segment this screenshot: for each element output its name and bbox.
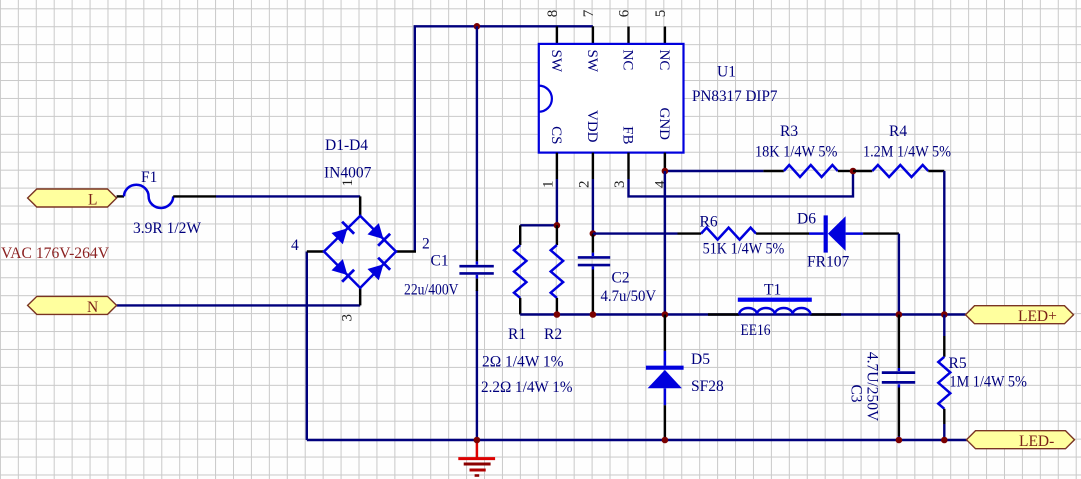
svg-text:L: L	[88, 192, 97, 209]
pin 3 stub	[627, 153, 629, 179]
pin 6 stub	[627, 27, 629, 44]
svg-text:R6: R6	[700, 214, 718, 231]
wire: D6 output down to LED+ rail	[898, 234, 900, 315]
bridge diamond	[324, 216, 396, 288]
junction dot node C1 top	[474, 23, 481, 30]
fuse F1 lead left	[117, 195, 124, 197]
svg-text:8: 8	[545, 10, 561, 18]
wire: pin 1 down to R1 R2 top	[556, 179, 558, 225]
wire: C1 vertical branch lower	[476, 290, 478, 440]
capacitor C1	[404, 250, 494, 299]
resistor R3	[755, 123, 853, 177]
diode bottom-right	[367, 258, 390, 281]
pin 4 stub	[664, 153, 666, 171]
wire: N connector to bridge bottom	[117, 304, 361, 306]
svg-text:NC: NC	[656, 50, 672, 71]
wire: pin 3 FB down and right	[629, 171, 854, 196]
svg-text:FB: FB	[620, 126, 636, 144]
port LED-	[967, 431, 1075, 450]
svg-text:C1: C1	[431, 253, 449, 270]
pin 8 stub	[556, 26, 558, 44]
svg-text:U1: U1	[717, 64, 736, 81]
port LED+	[966, 306, 1074, 325]
svg-text:VDD: VDD	[584, 110, 600, 143]
bridge pin lead top (pin 1)	[359, 196, 361, 216]
svg-text:4.7U/250V: 4.7U/250V	[864, 352, 881, 422]
svg-text:3: 3	[340, 314, 356, 322]
fuse F1 body	[124, 185, 173, 208]
diode bottom-left	[331, 259, 354, 282]
svg-text:4: 4	[291, 237, 299, 254]
wire: bottom LED- rail	[307, 439, 967, 441]
junction dot pin 4	[662, 168, 669, 175]
svg-text:N: N	[87, 299, 98, 316]
resistor R4	[853, 123, 951, 177]
wire: GND vertical to LED+ rail	[664, 171, 666, 315]
junction dot C3 top	[896, 311, 903, 318]
svg-text:C2: C2	[612, 270, 630, 287]
wire: top rail from bridge plus corner down to bridge right vertex	[415, 26, 593, 251]
svg-text:D5: D5	[691, 351, 710, 368]
pin 5 stub	[664, 27, 666, 44]
resistor R2	[551, 225, 563, 314]
resistor R5	[938, 315, 1027, 441]
pin 2 stub	[592, 153, 594, 179]
svg-text:2.2Ω 1/4W 1%: 2.2Ω 1/4W 1%	[481, 379, 573, 396]
svg-text:D1-D4: D1-D4	[325, 137, 368, 154]
svg-text:3.9R 1/2W: 3.9R 1/2W	[133, 220, 201, 237]
svg-text:1: 1	[540, 181, 556, 189]
svg-text:1.2M 1/4W 5%: 1.2M 1/4W 5%	[863, 144, 951, 161]
svg-text:18K 1/4W 5%: 18K 1/4W 5%	[755, 144, 837, 161]
svg-text:R4: R4	[889, 123, 907, 140]
diode top-right	[367, 223, 390, 246]
diode D6	[797, 211, 899, 271]
svg-text:C3: C3	[848, 384, 865, 402]
diode top-left	[331, 222, 354, 245]
diode D5	[646, 315, 724, 441]
svg-text:F1: F1	[141, 169, 157, 186]
svg-text:GND: GND	[656, 108, 672, 141]
wire: R1 R2 top link	[520, 224, 557, 226]
svg-text:6: 6	[617, 9, 633, 17]
junction dot C2 top / VDD	[590, 230, 597, 237]
junction dot R5 top	[941, 311, 948, 318]
svg-text:PN8317 DIP7: PN8317 DIP7	[692, 88, 778, 105]
transformer T1	[708, 282, 841, 340]
resistor R6	[678, 214, 810, 258]
bridge rectifier D1-D4	[291, 137, 430, 322]
svg-text:2: 2	[422, 236, 430, 253]
svg-text:LED-: LED-	[1019, 433, 1054, 450]
wire: pin 2 down to C2	[592, 179, 594, 234]
svg-text:FR107: FR107	[807, 254, 849, 271]
bridge pin lead left (pin 4)	[307, 250, 324, 252]
svg-text:2Ω 1/4W 1%: 2Ω 1/4W 1%	[482, 354, 564, 371]
svg-text:51K 1/4W 5%: 51K 1/4W 5%	[703, 241, 785, 258]
wire: bridge left vertical down to bottom rail	[306, 252, 308, 441]
svg-text:CS: CS	[548, 126, 564, 144]
junction dot D5 top	[662, 311, 669, 318]
svg-text:D6: D6	[797, 211, 816, 228]
U1 body	[539, 44, 684, 153]
svg-text:SF28: SF28	[691, 378, 724, 395]
svg-text:EE16: EE16	[741, 322, 771, 339]
wire: R4 output down to LED+ rail	[943, 171, 945, 315]
pin 1 stub	[556, 153, 558, 179]
svg-text:1M 1/4W 5%: 1M 1/4W 5%	[949, 374, 1027, 391]
capacitor C3	[848, 315, 916, 441]
svg-text:SW: SW	[548, 50, 564, 73]
svg-text:SW: SW	[584, 50, 600, 73]
junction dot R3 R4	[850, 168, 857, 175]
svg-text:R1: R1	[508, 326, 526, 343]
bridge pin lead right (pin 2)	[396, 250, 416, 252]
junction dot ground	[474, 437, 481, 444]
svg-text:3: 3	[612, 181, 628, 189]
pin 7 stub	[592, 26, 594, 44]
port N	[28, 296, 117, 316]
svg-text:4.7u/50V: 4.7u/50V	[601, 288, 657, 305]
svg-text:T1: T1	[764, 282, 781, 299]
bridge pin lead bottom (pin 3)	[359, 288, 361, 306]
svg-text:5: 5	[653, 10, 669, 18]
ground	[458, 441, 495, 476]
wire: C1 vertical branch upper	[476, 26, 478, 250]
svg-text:22u/400V: 22u/400V	[404, 282, 459, 299]
wire: pin 4 GND right	[665, 170, 764, 172]
svg-text:R3: R3	[780, 123, 798, 140]
svg-text:1: 1	[340, 179, 356, 187]
wire: LED+ rail	[520, 313, 965, 315]
resistor R1	[514, 225, 526, 314]
svg-text:VAC 176V-264V: VAC 176V-264V	[1, 245, 109, 262]
port L	[28, 189, 117, 209]
IC U1 PN8317	[539, 9, 778, 188]
junction dot C2 bottom	[590, 311, 597, 318]
svg-text:LED+: LED+	[1018, 308, 1057, 325]
fuse F1 lead right	[173, 195, 216, 197]
U1 notch	[539, 86, 552, 112]
wire: fuse to bridge top	[216, 195, 360, 197]
wire: VDD junction to R6	[593, 232, 678, 234]
svg-text:R5: R5	[949, 355, 967, 372]
junction dot C3 bottom	[896, 437, 903, 444]
junction dot R5 bottom	[941, 437, 948, 444]
junction dot D5 bottom	[662, 437, 669, 444]
junction dot R1R2 top	[554, 222, 561, 229]
svg-text:IN4007: IN4007	[324, 165, 372, 182]
capacitor C2	[578, 234, 657, 315]
junction dot R1 bottom	[554, 311, 561, 318]
svg-text:NC: NC	[620, 50, 636, 71]
svg-text:7: 7	[581, 9, 597, 17]
svg-text:2: 2	[576, 181, 592, 189]
svg-text:R2: R2	[544, 326, 562, 343]
